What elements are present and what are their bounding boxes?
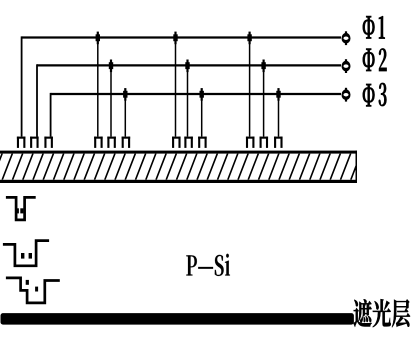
oxide layer (hatched SiO2 band) [0, 151, 361, 183]
phase bus line Φ3 [51, 93, 341, 95]
label 遮光层 (light shielding layer) [353, 299, 410, 327]
phase bus line Φ2 [37, 64, 341, 66]
arrowhead at bus Φ2 junction [109, 60, 113, 73]
electrode: group 2 phase 2 [107, 137, 116, 148]
terminal node Φ2 [342, 59, 351, 73]
electrode: group 1 phase 2 [30, 137, 38, 148]
wire: group-3 electrode 1 up to bus Φ1 [175, 38, 177, 137]
arrowhead at bus Φ3 junction [123, 88, 127, 101]
wire: group-3 electrode 2 up to bus Φ2 [187, 65, 189, 136]
arrowhead at bus Φ3 junction [276, 88, 280, 101]
wire: bus Φ1 left end down to group-1 electrode [21, 36, 23, 136]
electrode: group 4 phase 2 [260, 137, 269, 148]
wire: group-4 electrode 1 up to bus Φ1 [249, 38, 251, 137]
terminal node Φ3 [342, 88, 351, 102]
wire: group-4 electrode 2 up to bus Φ2 [263, 65, 265, 136]
phase bus line Φ1 [22, 36, 341, 38]
arrowhead at bus Φ3 junction [200, 88, 204, 101]
arrowhead at bus Φ1 junction [173, 32, 177, 45]
charge packet in well 3 (upper step) [26, 280, 29, 285]
label Φ1 [363, 16, 385, 38]
potential well 3 (stepped, charge moving right) [6, 278, 60, 303]
electrode: group 2 phase 3 [122, 137, 131, 148]
arrowhead at bus Φ2 junction [261, 60, 265, 73]
wire: group-2 electrode 3 up to bus Φ3 [124, 94, 126, 137]
electrode: group 4 phase 3 [274, 137, 283, 148]
light shield bar (opaque layer) [1, 313, 354, 325]
potential well 1 (under phase 1, holding charge) [6, 197, 36, 220]
electrode: group 3 phase 2 [184, 137, 193, 148]
charge packet in well 2 [29, 253, 32, 259]
charge packet in well 2 [21, 253, 24, 259]
electrode: group 3 phase 1 [172, 137, 181, 148]
wire: bus Φ2 left end down to group-1 electrode [36, 64, 38, 136]
terminal node Φ1 [342, 31, 351, 45]
label Φ2 [363, 49, 387, 71]
electrode: group 3 phase 3 [198, 137, 207, 148]
electrode: group 1 phase 1 [17, 137, 26, 148]
substrate label P—Si [186, 254, 230, 276]
wire: bus Φ3 left end down to group-1 electrode [50, 93, 52, 137]
wire: group-2 electrode 1 up to bus Φ1 [97, 38, 99, 137]
wire: group-4 electrode 3 up to bus Φ3 [278, 94, 280, 137]
arrowhead at bus Φ1 junction [247, 32, 251, 45]
label Φ3 [363, 83, 387, 106]
charge packet in well 1 [20, 208, 23, 213]
wire: group-3 electrode 3 up to bus Φ3 [201, 94, 203, 137]
charge packet in well 3 (lower step) [35, 287, 38, 292]
electrode: group 1 phase 3 [44, 137, 53, 148]
electrode: group 2 phase 1 [94, 137, 103, 148]
wire: group-2 electrode 2 up to bus Φ2 [110, 65, 112, 136]
charge packet in well 1 [16, 208, 19, 213]
arrowhead at bus Φ1 junction [96, 32, 100, 45]
arrowhead at bus Φ2 junction [185, 60, 189, 73]
electrode: group 4 phase 1 [246, 137, 255, 148]
potential well 2 (wider, charge transferring) [3, 241, 49, 266]
